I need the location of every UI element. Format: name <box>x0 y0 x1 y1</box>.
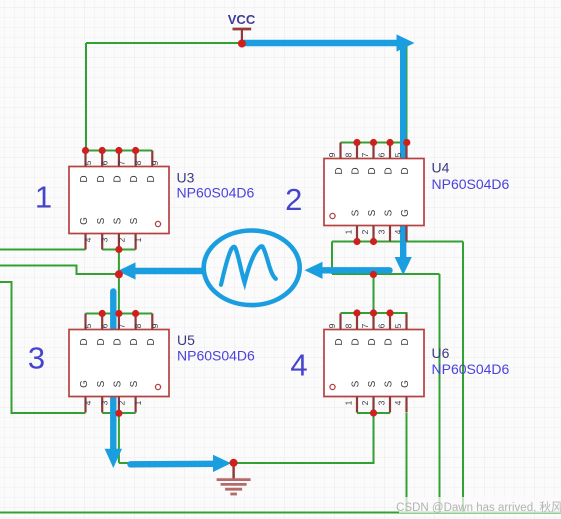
U4 pin 5 (D) <box>393 143 411 175</box>
U3 pin 7 (D) <box>113 151 127 183</box>
wire U6 source rail pins 1-2-3 <box>357 412 390 414</box>
U6 pin 8 (D) <box>344 314 362 346</box>
U4 body <box>324 159 424 226</box>
junction U5 source pin2 <box>115 410 122 417</box>
svg-text:4: 4 <box>83 400 93 405</box>
svg-text:1: 1 <box>133 237 143 242</box>
svg-text:8: 8 <box>344 323 354 328</box>
junction VCC node <box>238 40 246 48</box>
svg-text:G: G <box>79 380 90 388</box>
wire highlight arrow: node A down to ground rail <box>105 292 122 469</box>
svg-text:6: 6 <box>377 152 387 157</box>
U3 pin 3 (S) <box>96 217 110 249</box>
svg-text:S: S <box>129 217 140 224</box>
transistor U3 <box>69 151 255 250</box>
U3 pin 9 (D) <box>146 151 160 183</box>
U4 pin 3 (S) <box>377 209 395 241</box>
svg-text:D: D <box>96 338 107 345</box>
svg-text:D: D <box>351 338 362 345</box>
U6 pin-1 marker <box>330 384 335 389</box>
svg-text:VCC: VCC <box>228 12 256 27</box>
svg-text:5: 5 <box>83 323 93 328</box>
svg-text:6: 6 <box>100 323 110 328</box>
wire bottom bus <box>0 512 561 514</box>
power flag VCC <box>228 12 256 44</box>
svg-text:3: 3 <box>100 237 110 242</box>
wire highlight arrow: VCC node to right <box>243 34 415 51</box>
junction U6 pin8 <box>353 309 360 316</box>
transistor U5 <box>69 314 255 413</box>
svg-text:CSDN @Dawn has arrived, 秋风: CSDN @Dawn has arrived, 秋风 <box>396 500 561 514</box>
svg-text:7: 7 <box>116 323 126 328</box>
svg-text:1: 1 <box>344 400 354 405</box>
U5 pin 2 (S) <box>113 380 127 412</box>
svg-text:3: 3 <box>28 341 45 376</box>
svg-text:G: G <box>400 380 411 388</box>
svg-text:D: D <box>96 175 107 182</box>
svg-text:9: 9 <box>327 323 337 328</box>
wire highlight arrow: motor left terminal to node A <box>118 262 202 279</box>
transistor U4 <box>324 143 510 242</box>
svg-text:9: 9 <box>150 160 160 165</box>
svg-text:6: 6 <box>377 323 387 328</box>
junction U5 pin8 <box>132 310 139 317</box>
svg-text:S: S <box>96 217 107 224</box>
svg-text:8: 8 <box>133 323 143 328</box>
wire U4 bottom pin rail <box>332 241 463 243</box>
junction U4 pin6 <box>386 139 393 146</box>
junction U6 pin6 <box>386 309 393 316</box>
wire left input stepped to node A <box>0 266 119 275</box>
U5 pin 1 (S) <box>129 380 143 412</box>
svg-text:7: 7 <box>360 152 370 157</box>
wire U6 pin4 gate down to bottom bus <box>406 413 408 513</box>
svg-text:D: D <box>367 167 378 174</box>
junction U3 source pin2 <box>115 246 122 253</box>
watermark <box>396 497 561 514</box>
svg-text:D: D <box>79 175 90 182</box>
wire U4 top pin rail <box>341 142 408 144</box>
U4 pin 1 (S) <box>344 209 362 241</box>
svg-text:D: D <box>334 338 345 345</box>
wire highlight arrow: down right side to node B <box>395 49 412 276</box>
svg-text:D: D <box>129 175 140 182</box>
ground <box>217 463 251 494</box>
svg-text:2: 2 <box>116 237 126 242</box>
U3 pin 1 (S) <box>129 217 143 249</box>
junction U6 source pin2 <box>370 409 377 416</box>
wire node B horizontal <box>332 273 440 275</box>
U6 pin 9 (D) <box>327 314 345 346</box>
svg-text:G: G <box>79 217 90 225</box>
U5 pin 4 (G) <box>79 380 93 413</box>
svg-text:S: S <box>96 380 107 387</box>
junction U3 pin8 <box>132 147 139 154</box>
U4 pin 6 (D) <box>377 143 395 175</box>
U4 pin 7 (D) <box>360 143 378 175</box>
U5 pin 6 (D) <box>96 314 110 346</box>
wire left input to U3 pin4 gate <box>0 249 86 251</box>
svg-text:7: 7 <box>116 160 126 165</box>
wire left input to U5 pin4 gate <box>0 282 86 413</box>
junction U5 pin7 <box>115 310 122 317</box>
U4 pin-1 marker <box>330 213 335 218</box>
junction U4 pin7 <box>370 139 377 146</box>
U3 pin 8 (D) <box>129 151 143 183</box>
svg-text:5: 5 <box>393 152 403 157</box>
svg-text:S: S <box>129 380 140 387</box>
U6 pin 1 (S) <box>344 380 362 412</box>
U4 pin 4 (G) <box>393 209 411 242</box>
svg-text:S: S <box>351 380 362 387</box>
wire node B down to bottom bus <box>439 274 441 513</box>
svg-text:U5: U5 <box>177 332 195 348</box>
label half-bridge leg 1 <box>35 180 52 215</box>
U6 body <box>324 330 424 397</box>
wire U5 source rail pins 3-2-1 <box>102 412 135 414</box>
U5 body <box>69 330 169 397</box>
wire U3 top pin rail <box>86 150 153 152</box>
svg-text:9: 9 <box>327 152 337 157</box>
U5 pin 7 (D) <box>113 314 127 346</box>
svg-text:1: 1 <box>133 400 143 405</box>
svg-text:D: D <box>400 338 411 345</box>
wire U5 top pin rail <box>86 313 153 315</box>
junction ground node <box>230 459 238 467</box>
junction U4 source pin1 <box>353 238 360 245</box>
svg-text:D: D <box>79 338 90 345</box>
svg-text:1: 1 <box>35 180 52 215</box>
U4 pin 9 (D) <box>327 143 345 175</box>
U5 pin 9 (D) <box>146 314 160 346</box>
svg-text:2: 2 <box>360 229 370 234</box>
svg-text:5: 5 <box>83 160 93 165</box>
svg-text:U6: U6 <box>432 345 450 361</box>
svg-text:G: G <box>400 209 411 217</box>
transistor U6 <box>324 314 510 413</box>
junction U5 pin6 <box>99 310 106 317</box>
wire U4 rail down to bottom bus <box>462 242 464 513</box>
wire U6 top pin rail <box>341 312 408 314</box>
U3 pin 5 (D) <box>79 151 93 183</box>
U5 pin 5 (D) <box>79 314 93 346</box>
svg-text:S: S <box>113 217 124 224</box>
svg-text:D: D <box>146 175 157 182</box>
svg-text:D: D <box>384 338 395 345</box>
U4 pin 8 (D) <box>344 143 362 175</box>
svg-text:S: S <box>384 209 395 216</box>
U6 pin 3 (S) <box>377 380 395 412</box>
svg-text:2: 2 <box>360 400 370 405</box>
svg-text:3: 3 <box>100 400 110 405</box>
U3 pin 4 (G) <box>79 217 93 250</box>
svg-text:D: D <box>129 338 140 345</box>
svg-text:D: D <box>113 175 124 182</box>
junction U6 pin7 <box>370 309 377 316</box>
U3 pin 2 (S) <box>113 217 127 249</box>
svg-text:NP60S04D6: NP60S04D6 <box>177 185 255 201</box>
svg-text:U4: U4 <box>432 160 450 176</box>
U4 pin 2 (S) <box>360 209 378 241</box>
U5 pin 8 (D) <box>129 314 143 346</box>
svg-text:D: D <box>351 167 362 174</box>
svg-text:D: D <box>400 167 411 174</box>
svg-text:S: S <box>367 380 378 387</box>
wire VCC net: U3 gate rail to VCC node to U4 drains <box>86 43 407 143</box>
junction U4 source pin2 <box>370 238 377 245</box>
node B junction <box>370 271 377 278</box>
svg-text:9: 9 <box>150 323 160 328</box>
wire U3 source rail pins 3-2-1 <box>102 249 135 251</box>
U3 pin-1 marker <box>155 221 160 226</box>
junction U3 pin6 <box>99 147 106 154</box>
svg-text:D: D <box>334 167 345 174</box>
U6 pin 7 (D) <box>360 314 378 346</box>
svg-text:8: 8 <box>344 152 354 157</box>
U6 pin 5 (D) <box>393 314 411 346</box>
U3 pin 6 (D) <box>96 151 110 183</box>
svg-text:U3: U3 <box>177 170 195 186</box>
svg-text:NP60S04D6: NP60S04D6 <box>432 361 510 377</box>
svg-text:NP60S04D6: NP60S04D6 <box>177 348 255 364</box>
U5 pin 3 (S) <box>96 380 110 412</box>
wire ground rail to U6 sources <box>119 413 374 463</box>
junction U3 pin5 <box>82 147 89 154</box>
svg-text:2: 2 <box>116 400 126 405</box>
svg-text:1: 1 <box>344 229 354 234</box>
wire U3 sources down through node A to U5 drains <box>118 250 120 314</box>
svg-text:D: D <box>113 338 124 345</box>
svg-text:4: 4 <box>393 229 403 234</box>
junction U4 pin5 <box>403 139 410 146</box>
U5 pin-1 marker <box>155 384 160 389</box>
wire highlight arrow: ground rail to ground node <box>131 455 232 472</box>
svg-text:S: S <box>351 209 362 216</box>
junction U4 pin8 <box>353 139 360 146</box>
svg-text:6: 6 <box>100 160 110 165</box>
svg-text:4: 4 <box>393 400 403 405</box>
svg-text:D: D <box>146 338 157 345</box>
node A junction <box>115 270 123 278</box>
U3 body <box>69 167 169 234</box>
U6 pin 2 (S) <box>360 380 378 412</box>
junction U3 pin7 <box>115 147 122 154</box>
motor M <box>204 230 300 305</box>
label half-bridge leg 2 <box>285 182 302 217</box>
svg-text:8: 8 <box>133 160 143 165</box>
wire node B to U6 drains <box>373 274 375 313</box>
label half-bridge leg 4 <box>290 348 307 383</box>
label half-bridge leg 3 <box>28 341 45 376</box>
U6 pin 6 (D) <box>377 314 395 346</box>
wire U4 sources down to node B <box>331 242 333 275</box>
svg-text:3: 3 <box>377 400 387 405</box>
svg-text:S: S <box>367 209 378 216</box>
wire highlight arrow: into motor right terminal <box>305 262 390 279</box>
wire U3 gate rail drop <box>85 43 87 151</box>
wire U5 sources down to ground rail <box>118 413 120 463</box>
svg-text:S: S <box>113 380 124 387</box>
svg-text:5: 5 <box>393 323 403 328</box>
svg-text:D: D <box>384 167 395 174</box>
svg-text:3: 3 <box>377 229 387 234</box>
svg-text:D: D <box>367 338 378 345</box>
svg-text:7: 7 <box>360 323 370 328</box>
svg-text:2: 2 <box>285 182 302 217</box>
U6 pin 4 (G) <box>393 380 411 413</box>
svg-text:S: S <box>384 380 395 387</box>
svg-text:4: 4 <box>290 348 307 383</box>
svg-text:NP60S04D6: NP60S04D6 <box>432 176 510 192</box>
svg-text:4: 4 <box>83 237 93 242</box>
